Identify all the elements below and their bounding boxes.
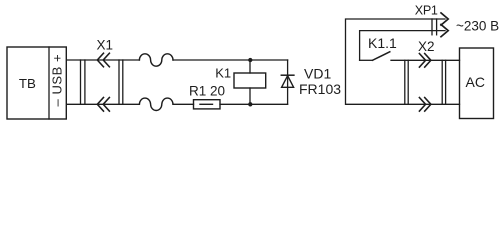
- svg-text:FR103: FR103: [299, 81, 341, 97]
- svg-text:XP1: XP1: [415, 4, 438, 18]
- connector X2 chevrons bottom wire: [419, 98, 431, 112]
- connector X1 chevrons top wire: [97, 53, 109, 67]
- relay contact K1.1 pole wire: [360, 59, 373, 61]
- mains plug XP1 lower pin arrow: [441, 25, 448, 37]
- mains plug XP1 lower pin wire: [360, 31, 445, 61]
- mains plug XP1 upper pin wire: [346, 19, 460, 104]
- flexible cord squiggle top wire: [139, 54, 173, 66]
- relay contact K1.1 blade: [373, 52, 390, 61]
- wire top stub from TB: [67, 59, 139, 61]
- relay coil K1 body: [234, 73, 266, 88]
- relay contact K1.1 throw wire to X2: [391, 59, 460, 61]
- svg-text:K1: K1: [215, 66, 231, 81]
- relay coil K1 top lead: [249, 60, 251, 73]
- wire bottom stub from TB: [67, 103, 139, 105]
- svg-text:X2: X2: [418, 39, 435, 54]
- connector X1 cable bars left: [80, 60, 82, 104]
- svg-text:~230 В: ~230 В: [456, 18, 499, 33]
- diode VD1 branch wire: [287, 60, 289, 104]
- junction node bottom: [248, 102, 252, 106]
- mains plug XP1 cable bars: [431, 19, 433, 35]
- svg-text:ТВ: ТВ: [19, 76, 36, 91]
- wire top middle: [173, 59, 288, 61]
- svg-text:VD1: VD1: [304, 65, 331, 81]
- connector X2 cable bars left: [404, 60, 406, 104]
- TV set box TB: [7, 47, 66, 119]
- mains plug XP1 upper pin arrow: [441, 13, 448, 25]
- connector X1 chevrons bottom wire: [97, 98, 109, 112]
- diode VD1 triangle: [282, 76, 294, 88]
- svg-text:R1 20: R1 20: [189, 83, 225, 98]
- USB connector strip divider: [48, 47, 50, 119]
- connector X2 chevrons top wire: [419, 54, 431, 68]
- diode VD1 cathode bar: [281, 74, 294, 76]
- connector X1 cable bars right: [118, 60, 120, 104]
- amplifier box AC: [460, 48, 494, 119]
- connector X2 cable bars right: [441, 60, 443, 104]
- wire bottom to resistor: [173, 103, 194, 105]
- junction node top: [248, 58, 252, 62]
- resistor R1 power mark 0.5W: [200, 103, 213, 105]
- relay coil K1 bottom lead: [249, 88, 251, 104]
- svg-text:X1: X1: [97, 38, 114, 53]
- wire bottom after resistor: [220, 103, 288, 105]
- resistor R1 body: [194, 100, 221, 109]
- svg-text:AC: AC: [466, 74, 485, 90]
- svg-text:– USB +: – USB +: [49, 54, 64, 107]
- flexible cord squiggle bottom wire: [139, 98, 173, 110]
- svg-text:K1.1: K1.1: [368, 35, 397, 51]
